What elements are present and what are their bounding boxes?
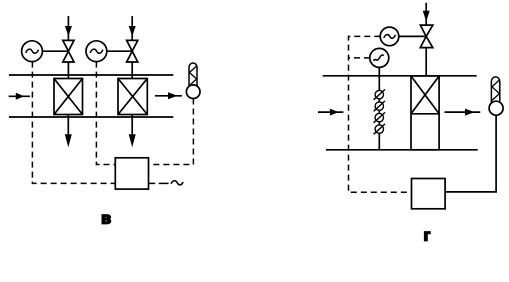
temperature sensor T2 (thermometer) xyxy=(489,77,503,115)
dashed mains lead with tilde xyxy=(149,181,184,185)
dashed control line: actuators to controller (scheme g) xyxy=(349,36,412,192)
wire A1 to valve V3 xyxy=(399,35,426,37)
return arrow below heat exchanger W1 xyxy=(65,115,72,148)
temperature sensor T1 (thermometer) xyxy=(186,63,200,98)
inlet air arrow (scheme g) xyxy=(318,109,343,116)
controller box (scheme g) xyxy=(412,179,446,209)
return arrow below heat exchanger W2 xyxy=(129,115,136,148)
wire valve V3 to heat exchanger W3 xyxy=(425,48,427,76)
dashed branch to damper actuator xyxy=(349,57,371,59)
valve actuator A1 (circle with tilde) xyxy=(380,27,399,46)
wire valve V2 to heat exchanger W2 xyxy=(131,62,133,79)
actuator M1 (circle with tilde) xyxy=(22,41,43,62)
supply arrow above valve V2 xyxy=(129,16,136,40)
outlet air arrow (scheme v) xyxy=(155,92,182,99)
wire valve V1 to heat exchanger W1 xyxy=(67,62,69,79)
air damper blade 2 xyxy=(374,101,385,111)
damper actuator A2 (circle with slanted wave) xyxy=(370,48,389,67)
inlet air arrow (scheme v) xyxy=(9,93,30,100)
supply arrow above valve V1 xyxy=(65,16,72,40)
dashed control line: actuator M2 to controller xyxy=(96,62,115,165)
outlet air arrow (scheme g) xyxy=(445,109,481,116)
duct top line (scheme g) xyxy=(323,75,477,77)
svg-text:г: г xyxy=(424,228,431,245)
air damper blade 1 xyxy=(374,89,385,99)
heat exchanger W1 xyxy=(54,79,83,115)
wire M2 to valve V2 xyxy=(107,50,132,52)
dashed control line: actuator M1 to controller xyxy=(32,62,115,184)
actuator M2 (circle with tilde) xyxy=(86,41,107,62)
heat exchanger W3 xyxy=(411,76,439,150)
duct top line (scheme v) xyxy=(9,74,173,76)
heat exchanger W2 xyxy=(118,79,147,115)
dashed control line: sensor T1 to controller xyxy=(149,99,194,165)
control valve V3 xyxy=(420,25,433,47)
duct bottom line (scheme g) xyxy=(326,149,478,151)
wire M1 to valve V1 xyxy=(42,50,68,52)
air damper blade 4 xyxy=(374,124,385,134)
wire A2 down to damper xyxy=(378,67,380,149)
wire sensor T2 to controller (scheme g) xyxy=(445,115,496,192)
controller box (scheme v) xyxy=(115,158,148,189)
supply arrow above valve V3 xyxy=(423,3,430,25)
air damper blade 3 xyxy=(374,112,385,122)
control valve V1 xyxy=(63,40,74,62)
duct bottom line (scheme v) xyxy=(9,116,173,118)
svg-text:в: в xyxy=(101,211,111,228)
control valve V2 xyxy=(127,40,138,62)
